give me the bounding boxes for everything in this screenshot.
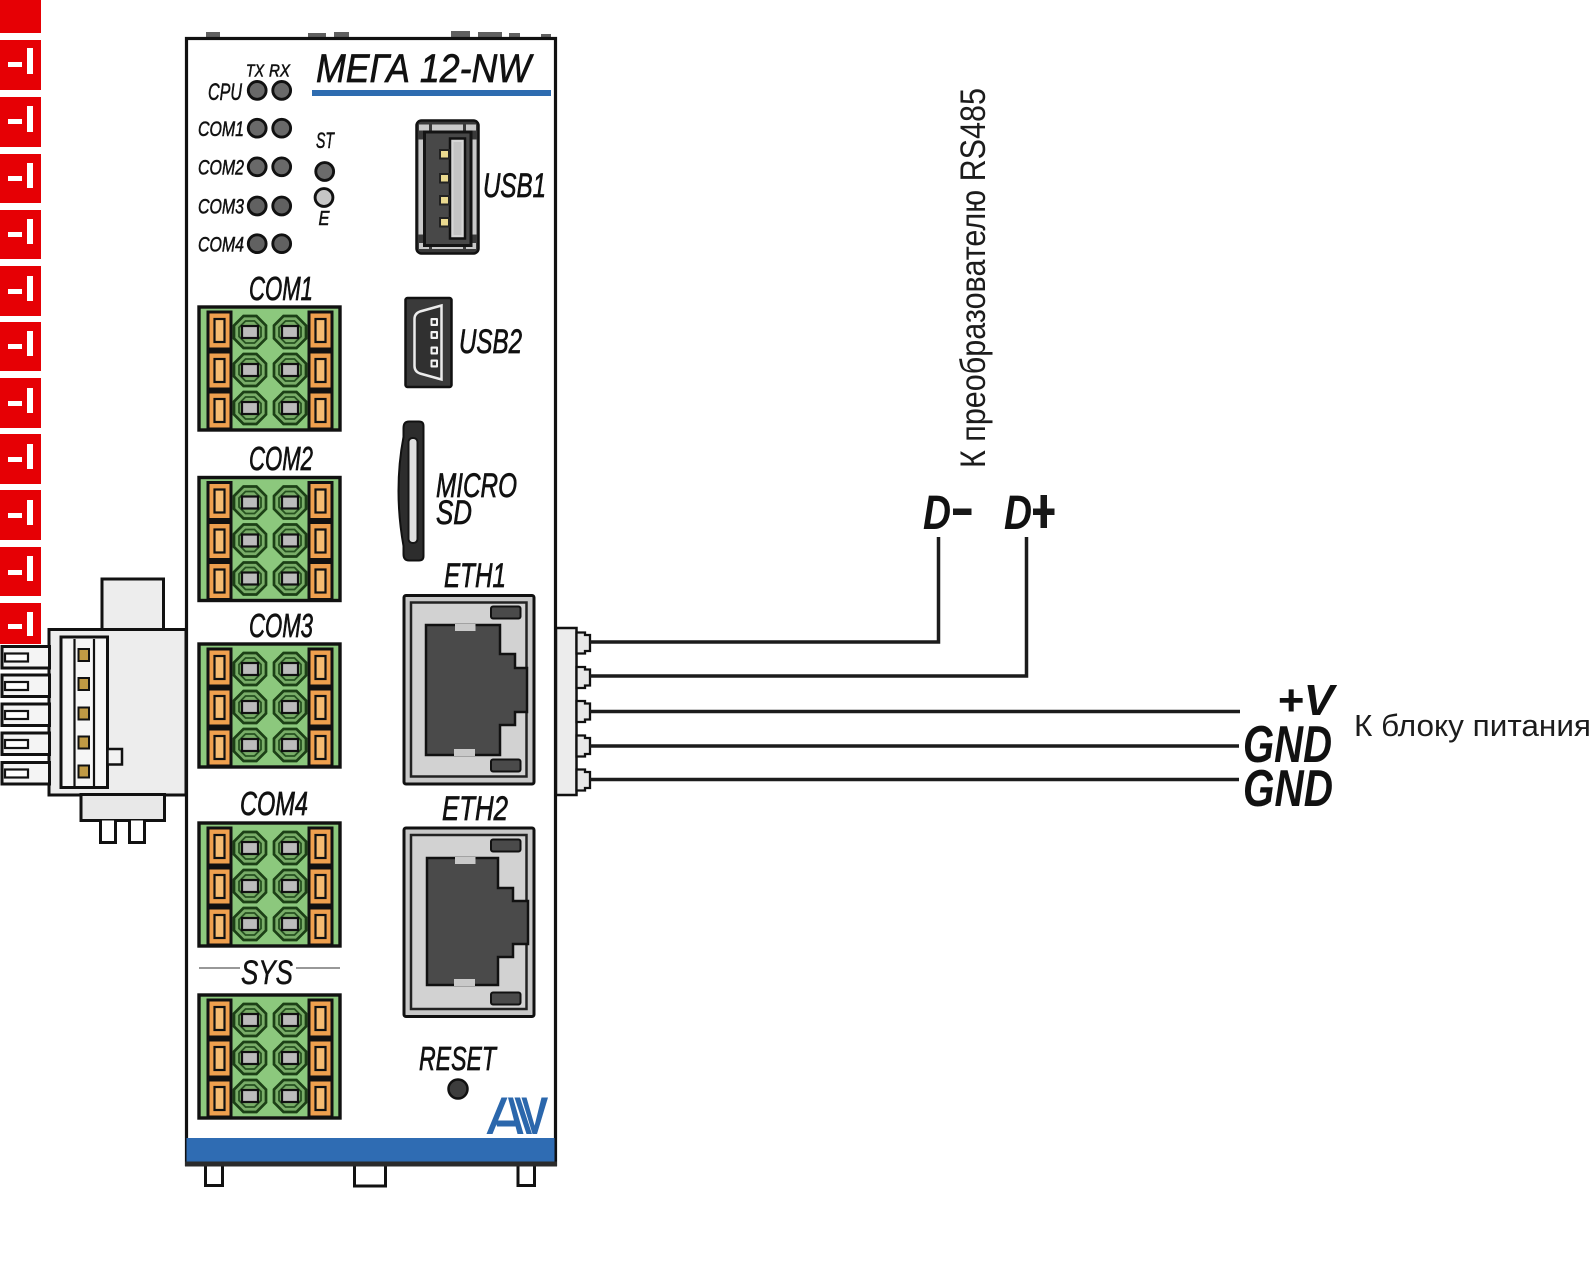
svg-text:TX: TX: [246, 61, 265, 81]
AV logo: [487, 1098, 549, 1135]
LED COM4 RX: [273, 235, 291, 253]
wire +V: [590, 710, 1240, 714]
bottom border: [185, 1162, 557, 1167]
ETH1 jack: [404, 596, 534, 785]
svg-text:USB2: USB2: [459, 323, 522, 361]
comb tooth 1: [2, 647, 50, 669]
label D+: [1004, 487, 1055, 540]
right connector bar: [556, 628, 577, 795]
svg-text:К блоку питания: К блоку питания: [1354, 708, 1591, 743]
wire GND1: [590, 744, 1239, 748]
watermark red strip: [0, 0, 41, 644]
LED COM2 RX: [273, 158, 291, 176]
COM4 terminal block: [199, 823, 340, 946]
LED E: [315, 189, 333, 207]
wire D+: [590, 537, 1027, 676]
svg-text:USB1: USB1: [483, 167, 546, 205]
svg-text:COM1: COM1: [198, 117, 244, 141]
svg-text:SYS: SYS: [241, 954, 293, 992]
comb tooth 5: [2, 763, 50, 785]
pin carrier: [61, 637, 108, 788]
title underline: [312, 90, 551, 96]
LED COM3 RX: [273, 197, 291, 215]
svg-text:COM3: COM3: [198, 195, 244, 219]
wire GND2: [590, 778, 1239, 782]
svg-text:К преобразователю RS485: К преобразователю RS485: [954, 88, 993, 468]
blue bottom bar: [187, 1138, 555, 1162]
svg-text:ST: ST: [316, 128, 335, 153]
bottom leg 1: [101, 821, 116, 843]
LED CPU RX: [273, 82, 291, 100]
connector pin 3: [79, 708, 90, 720]
top edge text remnants: [206, 31, 551, 38]
MICRO SD slot: [399, 422, 424, 561]
foot 2: [355, 1167, 386, 1187]
LED COM2 TX: [248, 158, 266, 176]
svg-text:SD: SD: [436, 494, 472, 532]
LED COM3 TX: [248, 197, 266, 215]
svg-text:GND: GND: [1243, 760, 1333, 818]
bottom leg 2: [130, 821, 145, 843]
comb tooth 4: [2, 733, 50, 755]
COM1 terminal block: [199, 307, 340, 430]
comb tooth 2: [2, 675, 50, 697]
right pin 1: [577, 633, 591, 654]
svg-text:COM4: COM4: [240, 785, 308, 822]
svg-text:ETH1: ETH1: [444, 557, 506, 595]
LED ST: [316, 163, 334, 181]
foot 1: [206, 1167, 223, 1186]
LED CPU TX: [248, 82, 266, 100]
svg-text:COM2: COM2: [198, 156, 244, 180]
bottom block: [81, 795, 165, 821]
svg-text:COM3: COM3: [249, 607, 313, 644]
LED COM1 TX: [248, 119, 266, 137]
COM3 terminal block: [199, 644, 340, 767]
SYS terminal block: [199, 995, 340, 1118]
svg-text:E: E: [319, 208, 331, 230]
USB1 connector: [417, 121, 479, 254]
svg-text:CPU: CPU: [208, 79, 242, 106]
device panel: [187, 39, 556, 1165]
ETH2 jack: [404, 828, 534, 1017]
svg-text:COM2: COM2: [249, 440, 313, 477]
LED COM1 RX: [273, 119, 291, 137]
connector pin 2: [79, 678, 90, 690]
svg-text:COM4: COM4: [198, 233, 244, 257]
wire D-: [590, 537, 939, 642]
svg-text:ETH2: ETH2: [442, 790, 508, 828]
connector pin 5: [79, 766, 90, 778]
svg-text:COM1: COM1: [249, 270, 313, 307]
right pin 4: [577, 736, 591, 757]
label D-: [923, 487, 972, 540]
svg-text:D: D: [923, 487, 951, 540]
LED COM4 TX: [248, 235, 266, 253]
SYS divider line right: [296, 967, 340, 969]
comb tooth 3: [2, 704, 50, 726]
svg-text:МЕГА 12-NW: МЕГА 12-NW: [316, 47, 534, 91]
USB2 connector: [406, 298, 452, 387]
svg-text:RESET: RESET: [419, 1040, 498, 1077]
left bus connector body: [49, 630, 186, 796]
right pin 3: [577, 701, 591, 722]
svg-text:RX: RX: [269, 61, 291, 81]
SYS divider line left: [199, 967, 240, 969]
COM2 terminal block: [199, 478, 340, 601]
svg-text:D: D: [1004, 487, 1032, 540]
connector pin 1: [79, 649, 90, 661]
right pin 2: [577, 667, 591, 688]
reset button: [449, 1080, 468, 1099]
right pin 5: [577, 770, 591, 791]
foot 3: [518, 1167, 535, 1186]
left bus connector top block: [102, 579, 164, 631]
latch tab: [108, 749, 123, 765]
connector pin 4: [79, 737, 90, 749]
